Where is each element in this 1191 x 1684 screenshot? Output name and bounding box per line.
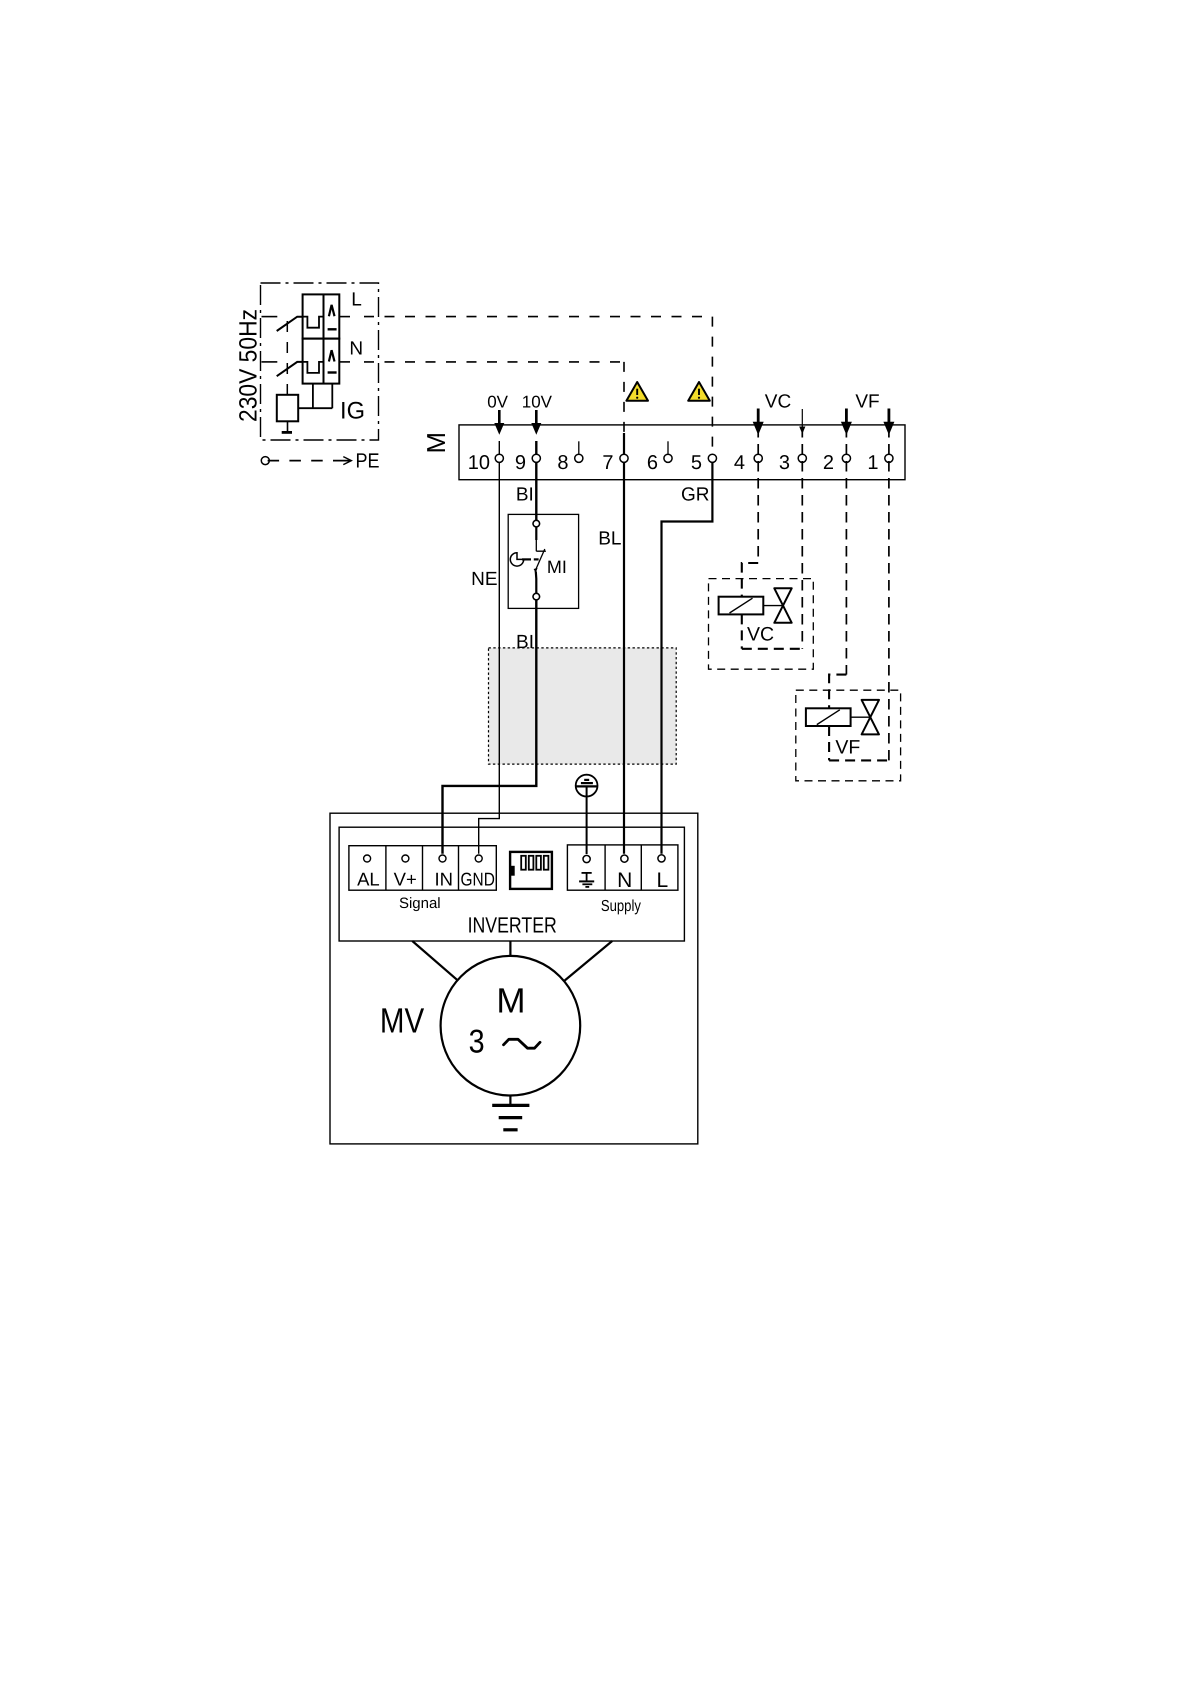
svg-text:L: L	[656, 869, 668, 892]
pin V+	[402, 855, 409, 862]
terminal 7	[602, 452, 628, 474]
svg-text:2: 2	[823, 452, 834, 474]
switch MI bottom contact	[533, 593, 540, 600]
VALVE VC	[709, 427, 814, 669]
trip element terminal bar	[287, 421, 289, 431]
warning triangle near terminal 7	[626, 382, 648, 401]
svg-text:M: M	[496, 981, 525, 1020]
VC valve link	[763, 605, 783, 607]
IG-BLOCK	[235, 283, 379, 440]
wire terminal 3 to VC	[801, 427, 803, 649]
svg-text:L: L	[351, 290, 362, 311]
motor ground	[509, 1096, 511, 1105]
switch MI blade	[535, 549, 545, 572]
terminals 10..1	[468, 441, 893, 474]
terminal 2	[823, 452, 851, 474]
earth wire to supply terminal	[586, 786, 588, 854]
pin L	[658, 855, 665, 862]
terminal 4	[734, 452, 762, 474]
wire GR from terminal 5 to L	[662, 462, 713, 854]
terminal 10	[468, 452, 504, 474]
wire L dashed from IG to terminal 5	[339, 316, 350, 318]
MI SWITCH	[508, 514, 578, 608]
pin IN	[439, 855, 446, 862]
VF coil return wire	[829, 726, 889, 760]
wire NE 0V from terminal 10 to GND	[479, 441, 500, 854]
arrow into terminal 10	[494, 410, 504, 435]
terminal 6	[647, 441, 672, 474]
svg-text:MV: MV	[380, 1001, 425, 1040]
svg-text:4: 4	[734, 452, 745, 474]
PE arrowhead	[343, 457, 351, 465]
terminal 9	[515, 452, 541, 474]
svg-text:5: 5	[691, 452, 702, 474]
svg-text:IN: IN	[435, 869, 454, 890]
svg-text:0V: 0V	[487, 393, 508, 412]
PE dashed wire	[268, 460, 334, 462]
protective earth circle symbol	[576, 775, 598, 854]
svg-text:1: 1	[867, 452, 878, 474]
VC coil return wire	[742, 614, 803, 648]
signal terminal block	[349, 846, 496, 912]
DIP switch icon	[510, 852, 552, 889]
terminal 5	[691, 452, 717, 474]
svg-text:GR: GR	[681, 485, 710, 506]
arrow into terminal 1	[883, 409, 894, 436]
terminal 1	[867, 452, 893, 474]
wire BI lower from MI to IN	[443, 597, 537, 854]
terminal strip M body	[459, 425, 905, 480]
svg-text:VF: VF	[855, 392, 879, 413]
wire terminal 2 to VF coil	[845, 427, 847, 675]
PE legend	[261, 449, 379, 472]
VC outer dashed box	[709, 579, 814, 670]
motor leads	[412, 941, 457, 980]
VF valve body	[862, 700, 879, 735]
svg-text:MI: MI	[547, 557, 567, 577]
solenoid coil VC	[719, 597, 764, 615]
motor M circle	[441, 956, 581, 1096]
breaker pole L blade	[277, 317, 303, 331]
switch MI manual operator	[510, 553, 523, 566]
wire terminal 4 to VC coil	[757, 427, 759, 563]
svg-text:M: M	[421, 432, 451, 454]
svg-text:230V 50Hz: 230V 50Hz	[235, 309, 263, 422]
svg-text:BL: BL	[598, 529, 621, 550]
svg-text:V+: V+	[394, 869, 417, 890]
svg-text:VC: VC	[747, 624, 774, 646]
svg-text:N: N	[349, 339, 363, 360]
switch MI top contact	[533, 520, 540, 527]
terminal 3	[779, 452, 807, 474]
VF valve link	[851, 716, 871, 718]
MOTOR	[380, 941, 612, 1130]
VF outer dashed box	[796, 690, 901, 781]
svg-text:N: N	[617, 869, 632, 892]
pin N	[621, 855, 628, 862]
svg-text:9: 9	[515, 452, 526, 474]
svg-text:GND: GND	[461, 869, 495, 890]
warning triangle near terminal 5	[688, 382, 710, 401]
isolator enclosure IG dash-dot border	[261, 283, 379, 440]
svg-text:BI: BI	[516, 485, 534, 506]
arrow into terminal 9	[531, 410, 541, 435]
svg-text:IG: IG	[340, 398, 365, 425]
switch MI box	[508, 514, 578, 608]
pin AL	[364, 855, 371, 862]
switch MI fixed contact line	[535, 527, 537, 540]
svg-text:BI: BI	[516, 632, 534, 653]
svg-text:10V: 10V	[522, 393, 553, 412]
mechanical linkage dashed	[286, 321, 288, 395]
svg-text:VF: VF	[835, 737, 860, 759]
arrow into terminal 3 thin	[799, 409, 805, 434]
PE source circle	[261, 457, 269, 465]
svg-text:10: 10	[468, 452, 490, 474]
svg-text:Supply: Supply	[601, 898, 641, 915]
gray option zone	[489, 648, 677, 764]
wire terminal 1 to VF	[888, 427, 890, 760]
trip element box	[277, 395, 298, 422]
VALVE VF	[796, 427, 901, 781]
INVERTER box	[339, 827, 684, 941]
pin GND	[475, 855, 482, 862]
TERMINAL STRIP M	[421, 425, 905, 480]
svg-text:3: 3	[779, 452, 790, 474]
svg-text:8: 8	[557, 452, 568, 474]
wire BL from terminal 7 to N	[623, 433, 625, 854]
pin earth	[583, 855, 590, 862]
svg-text:PE: PE	[356, 449, 380, 472]
wire stub to N pole	[262, 361, 278, 363]
solenoid coil VF	[806, 708, 851, 726]
arrow into terminal 4	[753, 409, 764, 436]
svg-text:3: 3	[469, 1023, 485, 1060]
arrow into terminal 2	[841, 409, 852, 436]
svg-text:6: 6	[647, 452, 658, 474]
supply terminal block	[567, 845, 678, 915]
VC valve body	[774, 588, 791, 623]
svg-text:VC: VC	[765, 392, 791, 413]
svg-text:INVERTER: INVERTER	[468, 913, 557, 938]
svg-text:NE: NE	[471, 569, 497, 590]
breaker pole L body	[303, 294, 340, 338]
svg-text:7: 7	[602, 452, 613, 474]
svg-text:AL: AL	[357, 869, 380, 890]
breaker pole N body	[303, 339, 340, 384]
breaker frame output	[298, 384, 332, 409]
wire stub to L pole	[262, 316, 278, 318]
wire BI 10V upper from terminal 9 to MI	[535, 441, 537, 521]
tilde phase symbol	[504, 1039, 541, 1048]
wire N dashed from IG to terminal 7	[339, 361, 350, 363]
svg-text:Signal: Signal	[399, 895, 441, 912]
breaker pole N blade	[277, 362, 303, 376]
MV enclosure box	[330, 813, 698, 1144]
terminal 8	[557, 441, 583, 474]
